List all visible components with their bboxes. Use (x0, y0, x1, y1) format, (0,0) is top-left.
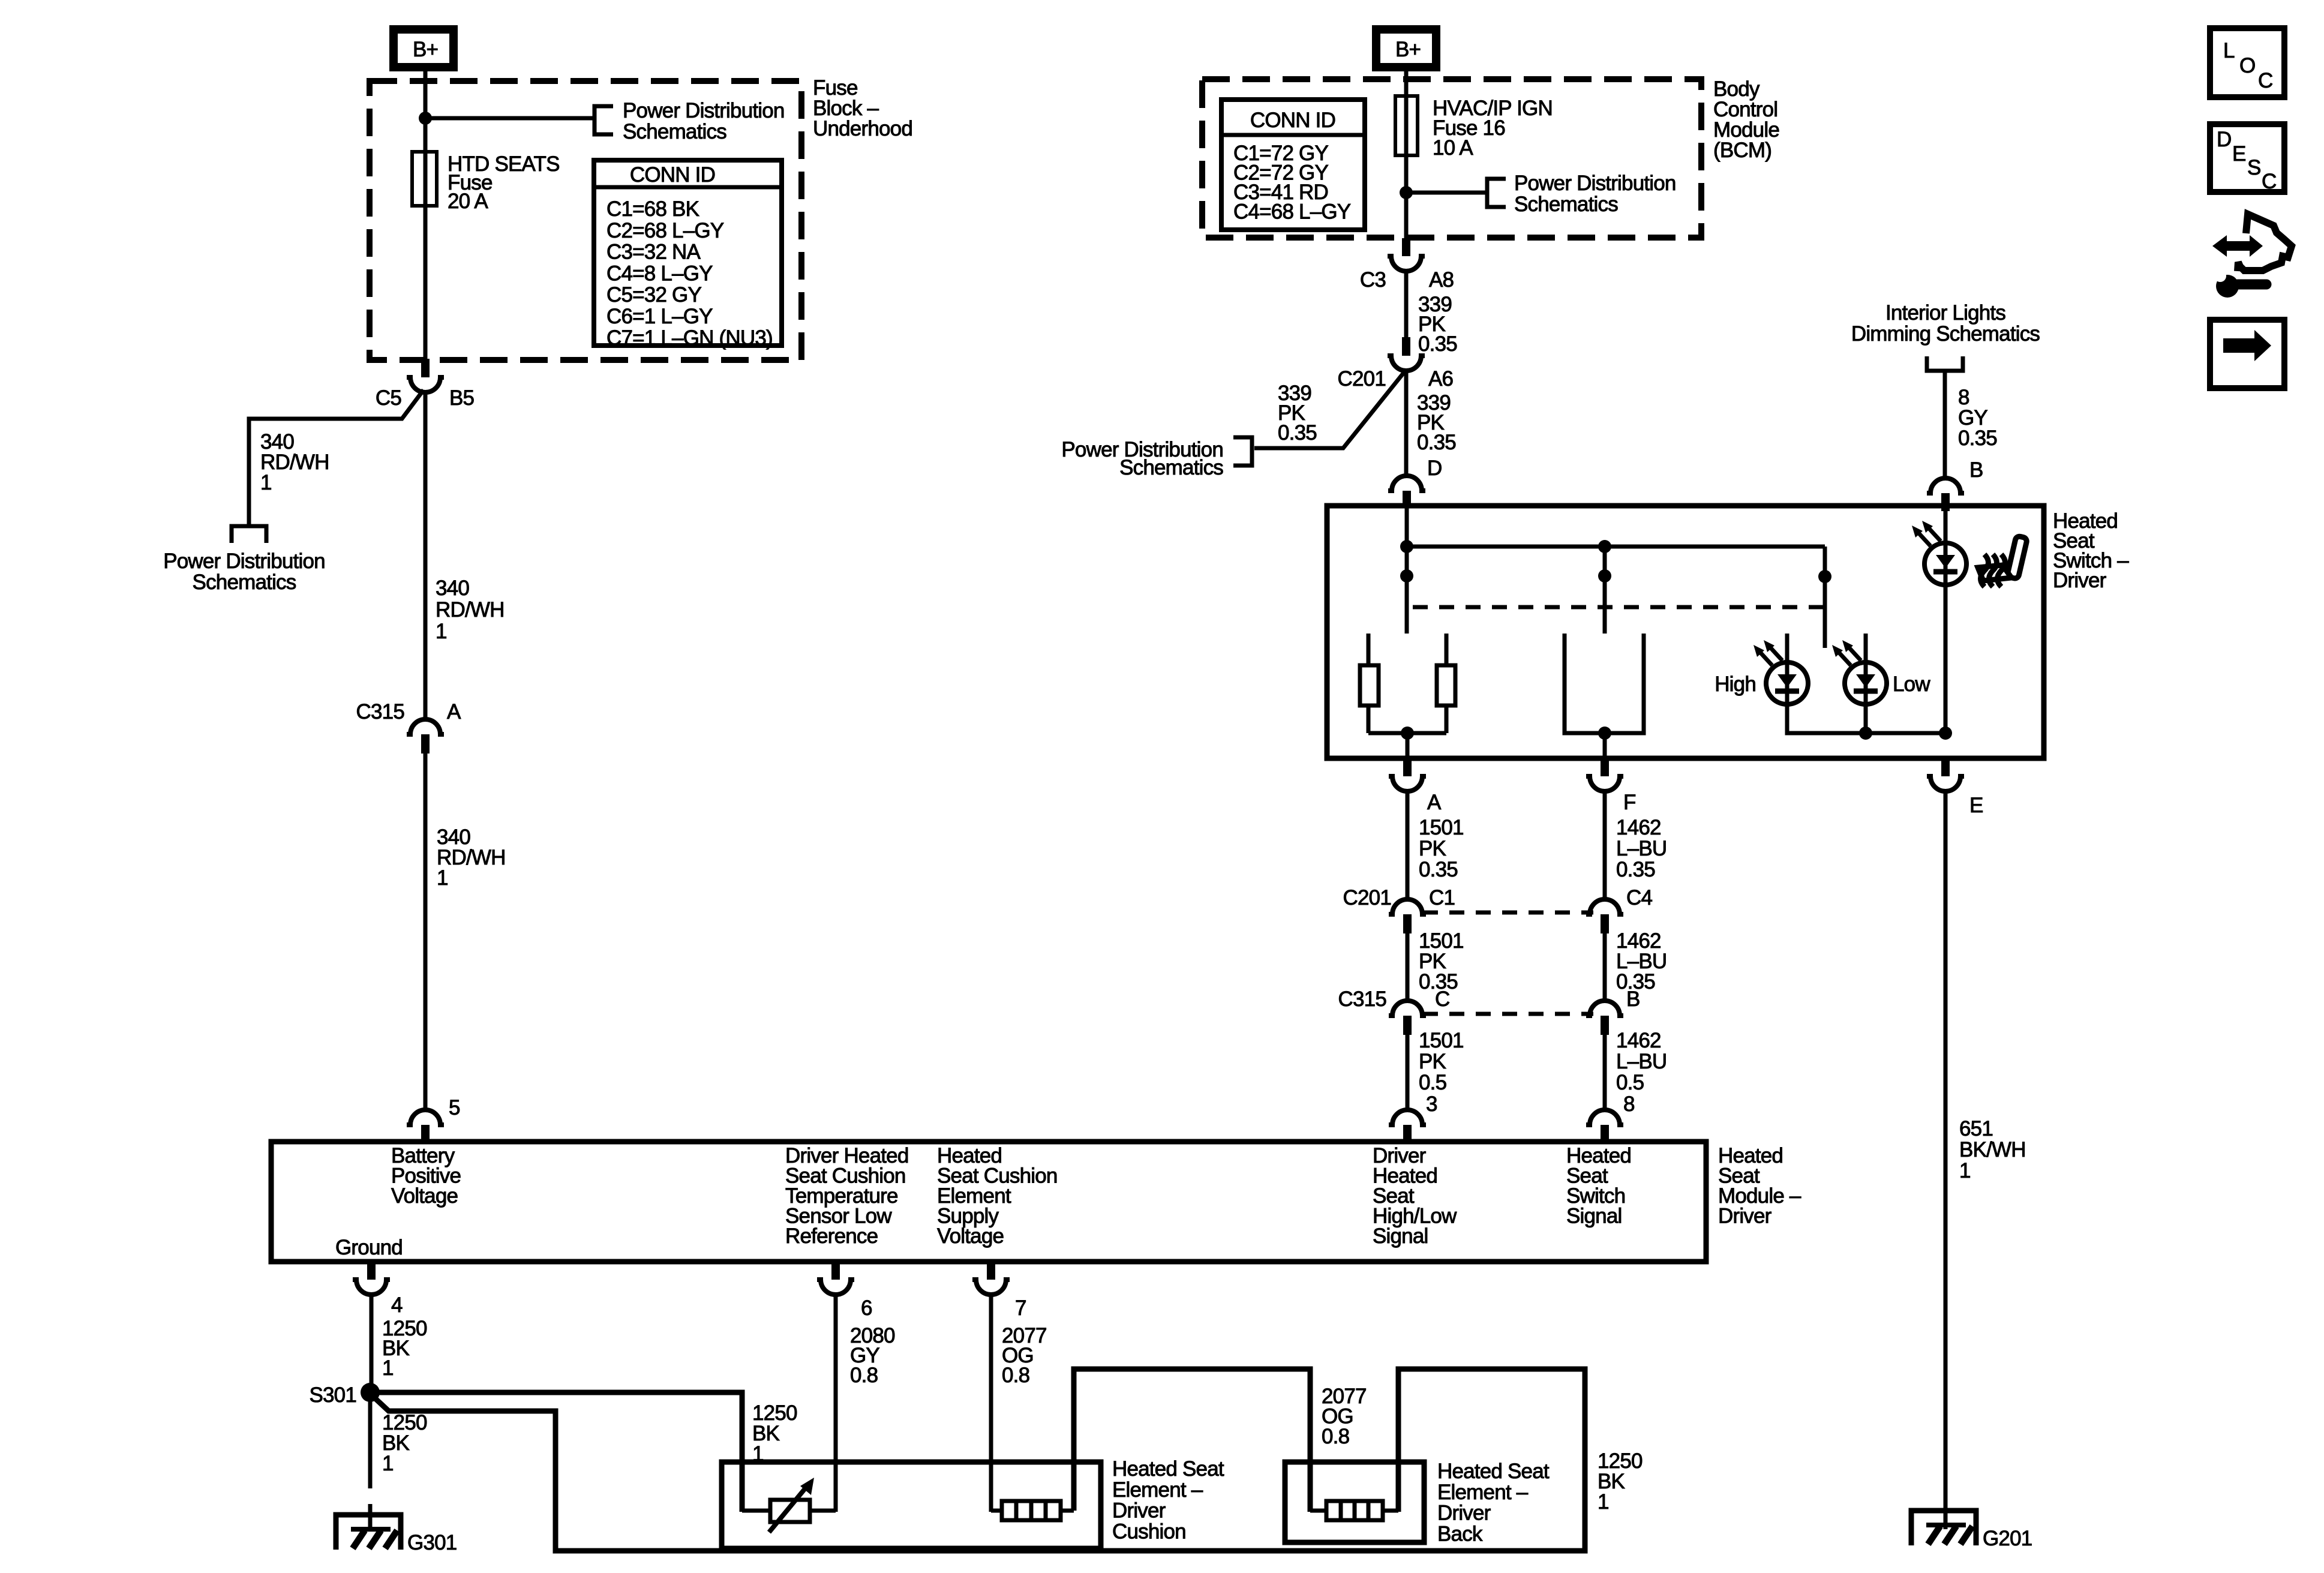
label Battery Positive Voltage (391, 1144, 461, 1208)
connector C5/B5 (376, 359, 474, 410)
label 339 PK 0.35 (left of C201) (1278, 382, 1317, 445)
svg-text:1: 1 (436, 620, 447, 643)
svg-text:Driver: Driver (1718, 1205, 1772, 1228)
svg-text:F: F (1623, 791, 1636, 814)
svg-text:1: 1 (260, 471, 272, 494)
svg-text:0.8: 0.8 (1322, 1425, 1349, 1448)
CONN ID table (fuse block) (594, 160, 782, 350)
pin A connector (1389, 757, 1442, 814)
mechanical linkage dashed line (1413, 605, 1824, 610)
svg-text:1501: 1501 (1419, 816, 1464, 839)
label 339 PK 0.35 (A8) (1418, 293, 1457, 356)
svg-text:1: 1 (1598, 1490, 1609, 1514)
svg-text:C315: C315 (1338, 987, 1386, 1011)
junction dot bus at pole 1 (1400, 540, 1413, 553)
ground G301 (336, 1515, 457, 1554)
label 340 RD/WH 1 (branch) (260, 430, 329, 494)
cushion heating element (991, 1501, 1074, 1520)
label Heated Seat Module - Driver (1718, 1144, 1801, 1228)
svg-text:G201: G201 (1983, 1527, 2032, 1550)
connector C201/A6 (1338, 337, 1454, 391)
label Driver Heated Seat High/Low Signal (1373, 1144, 1457, 1248)
svg-text:C4: C4 (1626, 886, 1652, 909)
svg-text:Element –: Element – (1112, 1478, 1203, 1502)
junction dot (BCM) (1400, 186, 1413, 199)
svg-text:C3: C3 (1360, 268, 1386, 292)
module pin 6 connector (817, 1262, 872, 1320)
switch pole 1 (1400, 547, 1413, 634)
svg-text:1: 1 (382, 1356, 394, 1380)
wire to power distribution bracket (BCM) (1406, 191, 1487, 195)
connector pin D (1388, 457, 1442, 508)
label Heated Seat Switch Signal (1566, 1144, 1631, 1228)
wire to power distribution bracket (fuse block) (425, 116, 594, 121)
icon DESC box (2210, 124, 2284, 193)
power distribution bracket (BCM) (1487, 179, 1506, 207)
svg-text:C1: C1 (1429, 886, 1455, 909)
wire 1462 L-BU C201 to C315 (1603, 933, 1607, 1002)
svg-text:C: C (2258, 69, 2272, 92)
wire 1501 PK C201 to C315 (1406, 933, 1410, 1002)
svg-text:0.35: 0.35 (1418, 332, 1457, 356)
wire 1250 BK pin 4 to S301 (370, 1293, 374, 1386)
label Fuse Block - Underhood (813, 76, 912, 140)
svg-text:Element –: Element – (1437, 1481, 1529, 1504)
fuse HVAC/IP IGN Fuse 16 (1395, 96, 1418, 155)
label Ground (335, 1236, 403, 1259)
CONN ID table (BCM) (1221, 100, 1365, 230)
pole 1 output wire (1368, 727, 1446, 758)
svg-text:Voltage: Voltage (937, 1224, 1004, 1248)
svg-text:O: O (2239, 54, 2255, 77)
temperature sensor (variable resistor) (742, 1478, 836, 1532)
connector C315 B (1586, 987, 1640, 1035)
pin E connector (1927, 757, 1983, 817)
svg-text:Driver: Driver (1112, 1499, 1166, 1523)
Low LED rays (1832, 640, 1861, 665)
junction dot bus at pole 2 (1598, 540, 1611, 553)
module pin 7 connector (972, 1262, 1026, 1320)
heated seat switch box (1327, 506, 2044, 758)
wire S301 to G301 (368, 1392, 373, 1529)
label 2080 GY 0.8 (850, 1324, 895, 1387)
svg-text:Underhood: Underhood (813, 117, 912, 140)
junction dot indicator return (1939, 727, 1952, 740)
wire B+ to BCM fuse (1404, 71, 1409, 98)
back heating element (1310, 1501, 1398, 1520)
connector C315/A (left) (356, 700, 461, 754)
connector C315 C (1338, 987, 1450, 1035)
power symbol B+ (BCM feed) (1376, 29, 1436, 67)
BCM dashed box (1202, 79, 1701, 238)
connector C3/A8 (1360, 238, 1454, 292)
connector pin B (1927, 458, 1983, 511)
svg-text:3: 3 (1426, 1092, 1437, 1116)
svg-text:Power Distribution: Power Distribution (163, 550, 325, 573)
label Power Distribution Schematics (BCM) (1514, 172, 1676, 216)
svg-text:A6: A6 (1428, 367, 1453, 391)
label 1250 BK 1 (cushion ground) (752, 1401, 797, 1466)
svg-text:0.5: 0.5 (1616, 1071, 1644, 1094)
label HTD SEATS Fuse 20 A (448, 152, 560, 213)
svg-text:0.35: 0.35 (1419, 858, 1458, 881)
label 2077 OG 0.8 (pin 7) (1002, 1324, 1047, 1387)
pin F connector (1586, 757, 1636, 814)
svg-text:Schematics: Schematics (193, 571, 296, 594)
svg-text:(BCM): (BCM) (1713, 139, 1771, 162)
label Body Control Module (BCM) (1713, 77, 1779, 162)
svg-text:0.8: 0.8 (850, 1364, 878, 1387)
svg-text:D: D (2217, 128, 2231, 151)
svg-text:Back: Back (1437, 1522, 1483, 1545)
wire 2077 OG cushion to back element (1074, 1369, 1310, 1512)
svg-text:B+: B+ (413, 38, 438, 61)
wire 1462 L-BU C315 to module pin 8 (1603, 1035, 1607, 1111)
svg-text:RD/WH: RD/WH (436, 598, 505, 622)
label Interior Lights Dimming Schematics (1851, 301, 2040, 346)
svg-text:A8: A8 (1429, 268, 1454, 292)
label 340 RD/WH 1 (C315 to module) (437, 825, 506, 890)
svg-text:1462: 1462 (1616, 1029, 1661, 1052)
throw contact pole 1 left (1367, 634, 1371, 665)
svg-text:C7=1 L–GN (NU3): C7=1 L–GN (NU3) (606, 326, 773, 350)
svg-text:B+: B+ (1395, 38, 1421, 61)
label Power Distribution Schematics (C201) (1061, 438, 1223, 479)
wire S301 to cushion element ground (370, 1392, 742, 1512)
resistor R2 (switch) (1437, 665, 1455, 733)
label Power Distribution Schematics (left bottom) (163, 550, 325, 594)
svg-text:C201: C201 (1343, 886, 1391, 909)
wire 2080 GY pin 6 to sensor (834, 1293, 838, 1512)
connector C201 C1 (1343, 886, 1455, 933)
icon wrench with arrows (2212, 214, 2292, 298)
power distribution bracket (left bottom) (232, 526, 266, 543)
svg-text:20 A: 20 A (448, 190, 488, 213)
label Driver Heated Seat Cushion Temperature Sensor Low Reference (785, 1144, 909, 1248)
svg-text:Dimming Schematics: Dimming Schematics (1851, 322, 2040, 346)
svg-text:C2=68 L–GY: C2=68 L–GY (606, 219, 724, 242)
svg-text:E: E (2232, 142, 2246, 166)
svg-text:0.8: 0.8 (1002, 1364, 1029, 1387)
label 1250 BK 1 (ground) (382, 1411, 427, 1475)
svg-text:G301: G301 (407, 1531, 457, 1554)
label 1501 PK 0.5 (1419, 1029, 1464, 1094)
indicator LED (switch illumination) (1924, 511, 1966, 733)
svg-text:Signal: Signal (1566, 1205, 1622, 1228)
svg-text:BK/WH: BK/WH (1959, 1138, 2026, 1161)
svg-text:Reference: Reference (785, 1224, 878, 1248)
resistor R1 (switch) (1360, 665, 1379, 733)
splice S301 (309, 1383, 380, 1407)
switch pole 3 (1818, 547, 1831, 648)
label 339 PK 0.35 (A6) (1417, 391, 1456, 454)
label 1462 L-BU 0.35 (C4) (1616, 929, 1667, 993)
svg-text:1: 1 (437, 866, 448, 890)
icon arrow box (2210, 320, 2284, 388)
label 1462 L-BU 0.5 (1616, 1029, 1667, 1094)
heated seat module box (271, 1142, 1706, 1262)
svg-text:1: 1 (382, 1452, 394, 1475)
label 1501 PK 0.35 (C1) (1419, 929, 1464, 993)
svg-text:E: E (1969, 794, 1983, 817)
svg-text:Heated Seat: Heated Seat (1112, 1457, 1224, 1481)
label Heated Seat Element - Driver Back (1437, 1460, 1550, 1545)
wire pin D into switch (1405, 507, 1409, 547)
svg-text:C201: C201 (1338, 367, 1386, 391)
svg-text:0.35: 0.35 (1278, 421, 1317, 445)
svg-text:651: 651 (1959, 1117, 1993, 1140)
icon LOC box (2210, 28, 2284, 97)
label Low (1893, 673, 1930, 696)
svg-text:L: L (2223, 39, 2235, 62)
wire 8 GY to pin B (1943, 371, 1947, 479)
wire 2077 OG pin 7 to cushion element (989, 1293, 993, 1512)
svg-text:4: 4 (391, 1293, 403, 1317)
svg-text:Schematics: Schematics (1119, 456, 1223, 479)
svg-text:0.35: 0.35 (1958, 427, 1997, 450)
switch supply bus (1407, 545, 1825, 549)
svg-text:Power Distribution: Power Distribution (623, 99, 785, 122)
wire S301 to seat back return (372, 1369, 1585, 1551)
wire 1462 L-BU pin F to C201 (1603, 790, 1607, 900)
fuse HTD SEATS 20 A (412, 152, 437, 206)
High LED rays (1753, 640, 1782, 665)
wire fuse to BCM exit (1404, 155, 1409, 239)
svg-text:0.35: 0.35 (1417, 431, 1456, 454)
svg-text:CONN ID: CONN ID (1250, 109, 1335, 132)
svg-text:PK: PK (1419, 837, 1446, 860)
svg-text:Signal: Signal (1373, 1224, 1428, 1248)
wire 1501 PK C315 to module pin 3 (1406, 1035, 1410, 1111)
wire branch 340 RD/WH to power distribution (249, 390, 424, 525)
svg-text:PK: PK (1419, 1050, 1446, 1073)
svg-text:Power Distribution: Power Distribution (1514, 172, 1676, 195)
module pin 3 connector (1389, 1092, 1437, 1142)
svg-text:Cushion: Cushion (1112, 1520, 1186, 1543)
High LED (1766, 662, 1808, 704)
svg-text:C: C (2262, 170, 2276, 193)
svg-text:Schematics: Schematics (623, 120, 726, 143)
svg-text:0.35: 0.35 (1616, 858, 1655, 881)
label 1250 BK 1 (back return) (1598, 1449, 1643, 1514)
svg-text:C5: C5 (376, 386, 401, 410)
heated seat icon (1978, 536, 2028, 587)
svg-text:340: 340 (436, 577, 469, 600)
label 1462 L-BU 0.35 (F) (1616, 816, 1667, 881)
wire B+ to fuse (424, 71, 428, 154)
throw contact pole 3 to Low LED (1864, 634, 1868, 664)
svg-text:Ground: Ground (335, 1236, 403, 1259)
power symbol B+ (fuse block feed) (394, 29, 454, 67)
svg-text:A: A (1427, 791, 1442, 814)
svg-text:S301: S301 (309, 1383, 356, 1407)
svg-text:L–BU: L–BU (1616, 1050, 1667, 1073)
svg-text:Driver: Driver (2053, 569, 2107, 592)
wire 340 RD/WH C315 to module pin 5 (424, 754, 428, 1111)
label Heated Seat Element - Driver Cushion (1112, 1457, 1224, 1543)
wire 1501 PK pin A to C201 (1406, 790, 1410, 900)
wire 340 RD/WH B5 to C315 (424, 390, 428, 721)
module pin 4 connector (353, 1262, 403, 1317)
interior lights reference bracket (1927, 356, 1963, 371)
svg-text:5: 5 (449, 1096, 460, 1119)
connector C201 C4 (1586, 886, 1652, 933)
svg-text:Interior Lights: Interior Lights (1885, 301, 2005, 325)
svg-text:B: B (1626, 987, 1640, 1011)
svg-text:C1=68 BK: C1=68 BK (606, 197, 699, 221)
C201 connector dashed pairing (1423, 911, 1593, 915)
label 1250 BK 1 (pin 4) (382, 1317, 427, 1380)
svg-text:C: C (1435, 987, 1449, 1011)
svg-text:High: High (1715, 673, 1756, 696)
svg-text:CONN ID: CONN ID (630, 163, 715, 187)
svg-text:0.5: 0.5 (1419, 1071, 1446, 1094)
svg-text:C4=8 L–GY: C4=8 L–GY (606, 262, 713, 285)
label High (1715, 673, 1756, 696)
label 1501 PK 0.35 (A) (1419, 816, 1464, 881)
label HVAC/IP IGN Fuse 16 10 A (1433, 97, 1553, 160)
svg-text:B: B (1969, 458, 1983, 482)
svg-text:6: 6 (861, 1296, 872, 1320)
svg-text:Voltage: Voltage (391, 1184, 458, 1208)
svg-text:Low: Low (1893, 673, 1930, 696)
power distribution reference bracket (fuse block) (594, 106, 613, 134)
svg-text:1501: 1501 (1419, 1029, 1464, 1052)
label 8 GY 0.35 (1958, 386, 1997, 450)
wire fuse to C5 (424, 206, 428, 361)
label 340 RD/WH 1 (B5 to C315) (436, 577, 505, 643)
Low LED (1845, 662, 1887, 704)
svg-text:10 A: 10 A (1433, 136, 1473, 160)
fuse block dashed box (370, 81, 801, 360)
svg-text:Schematics: Schematics (1514, 193, 1618, 216)
junction dot Low LED return (1859, 704, 1872, 740)
svg-text:D: D (1427, 457, 1442, 480)
diagonal wire C201 to power distribution (1254, 372, 1404, 448)
module pin 8 connector (1586, 1092, 1635, 1142)
svg-text:A: A (447, 700, 461, 724)
svg-text:B5: B5 (449, 386, 474, 410)
wire C201 to switch pin D (1404, 371, 1409, 477)
wire 339 PK C3 to C201 (1404, 270, 1409, 338)
C315 connector dashed pairing (1423, 1012, 1593, 1016)
label 2077 OG 0.8 (back element) (1322, 1385, 1367, 1448)
svg-text:7: 7 (1015, 1296, 1026, 1320)
svg-text:Heated Seat: Heated Seat (1437, 1460, 1550, 1483)
label Power Distribution Schematics (fuse block) (623, 99, 785, 143)
label 651 BK/WH 1 (1959, 1117, 2026, 1182)
power distribution bracket (C201) (1233, 437, 1252, 466)
svg-text:1: 1 (1959, 1159, 1971, 1182)
throw contacts pole 2 (1565, 634, 1644, 758)
throw contact pole 3 to High LED (1785, 634, 1789, 664)
label Heated Seat Cushion Element Supply Voltage (937, 1144, 1058, 1248)
wire 651 BK/WH pin E to G201 (1944, 790, 1948, 1529)
junction dot at fuse block feed (419, 112, 432, 125)
indicator LED rays (1912, 521, 1941, 546)
label Heated Seat Switch - Driver (2053, 509, 2129, 592)
svg-text:Driver: Driver (1437, 1502, 1491, 1525)
module pin 5 connector (407, 1096, 460, 1142)
svg-text:C3=32 NA: C3=32 NA (606, 241, 701, 264)
switch pole 2 (1598, 547, 1611, 634)
svg-text:L–BU: L–BU (1616, 837, 1667, 860)
svg-text:S: S (2247, 156, 2261, 179)
svg-text:C6=1 L–GY: C6=1 L–GY (606, 305, 713, 328)
LED return bus (1787, 704, 1945, 733)
heated seat element driver cushion box (722, 1462, 1101, 1548)
svg-text:C5=32 GY: C5=32 GY (606, 283, 701, 307)
throw contact pole 1 right (1445, 634, 1449, 665)
svg-text:1462: 1462 (1616, 816, 1661, 839)
svg-text:8: 8 (1623, 1092, 1635, 1116)
svg-text:C4=68 L–GY: C4=68 L–GY (1233, 200, 1351, 224)
svg-text:C315: C315 (356, 700, 404, 724)
ground G201 (1911, 1511, 2032, 1550)
heated seat element driver back box (1285, 1462, 1424, 1542)
